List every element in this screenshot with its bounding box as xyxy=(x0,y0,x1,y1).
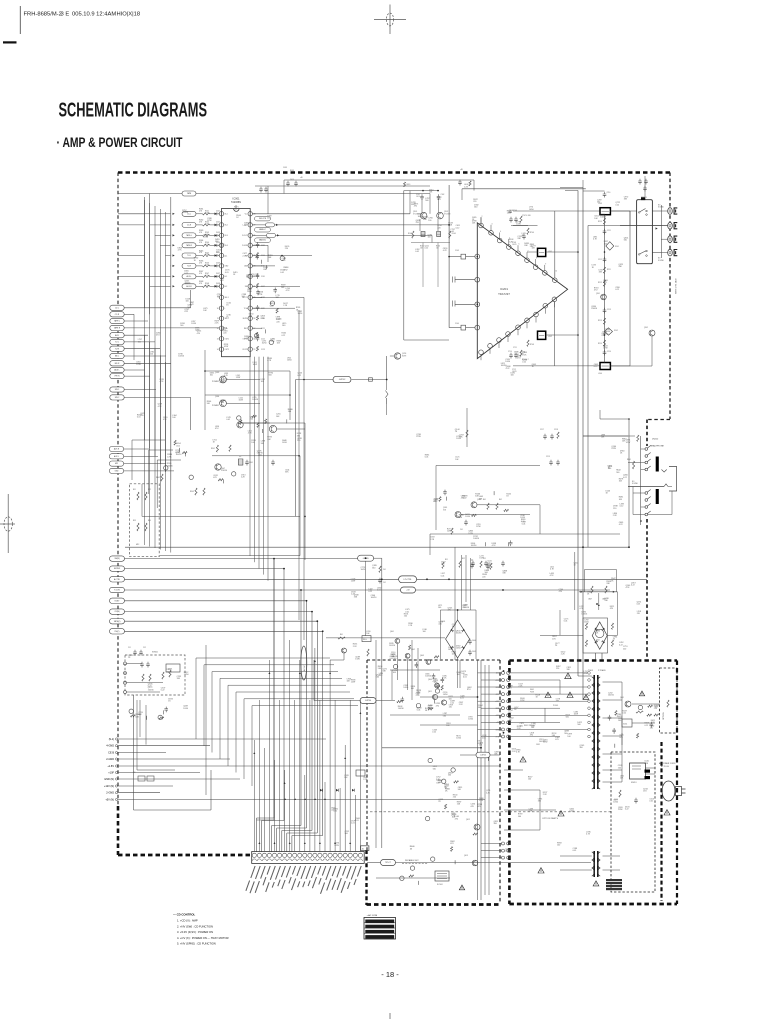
svg-text:B-2: B-2 xyxy=(225,286,228,288)
svg-text:10/50: 10/50 xyxy=(282,442,287,444)
IC001 right component cluster xyxy=(254,254,289,345)
left bus labels xyxy=(136,332,176,421)
wire jack to RCA4 xyxy=(652,252,661,254)
svg-text:SW 2: SW 2 xyxy=(115,397,119,399)
IC001 right side wires xyxy=(252,213,410,215)
svg-text:100/16: 100/16 xyxy=(581,614,587,616)
svg-text:0.22: 0.22 xyxy=(161,690,165,692)
component cluster xyxy=(237,409,294,433)
svg-text:IC201: IC201 xyxy=(500,287,508,291)
svg-text:19: 19 xyxy=(254,308,256,310)
svg-text:CD L: CD L xyxy=(115,307,119,309)
svg-text:Q102: Q102 xyxy=(444,211,448,213)
svg-text:0.01: 0.01 xyxy=(463,677,467,679)
svg-text:8: 8 xyxy=(218,286,219,288)
+5V wire xyxy=(416,589,611,591)
svg-text:TAPE L: TAPE L xyxy=(114,320,120,323)
option box component xyxy=(619,790,621,797)
svg-text:560: 560 xyxy=(345,833,348,835)
svg-text:100: 100 xyxy=(251,442,254,444)
svg-text:3. +5.0V (D,SV) : POWER ON: 3. +5.0V (D,SV) : POWER ON xyxy=(177,930,213,934)
svg-text:D014: D014 xyxy=(216,242,220,244)
J-W705 jumper oval xyxy=(358,555,374,561)
long vertical wire xyxy=(298,310,300,620)
feedback loop right vertical xyxy=(629,211,631,366)
bridge loop wires xyxy=(440,609,476,611)
svg-text:Q604: Q604 xyxy=(428,679,432,681)
D602 outputs to power box xyxy=(594,653,596,660)
bus oval A-CTRL xyxy=(110,577,125,582)
svg-text:Q007: Q007 xyxy=(221,468,225,470)
svg-text:220: 220 xyxy=(654,708,657,710)
IC right rail wire xyxy=(255,185,430,187)
svg-text:SW: SW xyxy=(245,286,248,288)
trimmer VR201 xyxy=(238,459,243,465)
svg-text:R214: R214 xyxy=(598,343,602,345)
middle box connector verticals xyxy=(477,660,479,900)
svg-text:1/2W: 1/2W xyxy=(253,364,258,366)
svg-text:560: 560 xyxy=(372,567,375,569)
svg-text:100/16: 100/16 xyxy=(463,607,469,609)
svg-text:5. +NV (SPKE) : CD FUNCTION: 5. +NV (SPKE) : CD FUNCTION xyxy=(177,942,216,946)
TFT-CTRL oval xyxy=(381,860,396,866)
top rail component at 460 xyxy=(458,180,462,186)
svg-text:SW 1: SW 1 xyxy=(115,389,119,391)
svg-text:0.22: 0.22 xyxy=(506,368,510,370)
relay in option box xyxy=(630,763,646,779)
svg-text:Q651: Q651 xyxy=(620,697,624,699)
svg-text:23: 23 xyxy=(254,266,256,268)
svg-text:10/50: 10/50 xyxy=(191,323,196,325)
right chain vertical wire xyxy=(604,215,606,363)
vertical x=410 join xyxy=(409,191,411,214)
bus oval CD(M) xyxy=(110,609,125,614)
svg-text:Q602: Q602 xyxy=(411,649,415,651)
IC right connector oval row2 xyxy=(266,223,275,227)
D602 upper jog wires xyxy=(584,569,616,571)
svg-text:10/50: 10/50 xyxy=(605,331,610,333)
svg-text:0.22: 0.22 xyxy=(645,725,649,727)
svg-text:1/2W: 1/2W xyxy=(207,220,212,222)
svg-text:10/50: 10/50 xyxy=(468,719,473,721)
connector CD R xyxy=(110,312,124,317)
mid lower labels xyxy=(351,565,381,599)
power right labels xyxy=(608,693,659,739)
print header rule xyxy=(19,6,21,34)
IC001 right labels xyxy=(254,215,302,362)
svg-text:1/2W: 1/2W xyxy=(351,580,356,582)
cluster above triangle xyxy=(509,217,513,223)
svg-text:PH IN: PH IN xyxy=(115,376,120,378)
svg-text:R211: R211 xyxy=(607,269,611,271)
svg-text:R106: R106 xyxy=(205,263,209,265)
svg-text:3 E: 3 E xyxy=(61,12,70,18)
svg-text:220: 220 xyxy=(637,613,640,615)
bus row1 corner vertical xyxy=(273,559,275,820)
power box inner step wires xyxy=(559,680,561,694)
svg-text:560: 560 xyxy=(577,724,580,726)
IC001 right area wires xyxy=(252,244,268,246)
svg-text:15: 15 xyxy=(254,349,256,351)
svg-text:18: 18 xyxy=(254,318,256,320)
svg-text:220: 220 xyxy=(453,797,456,799)
svg-text:220: 220 xyxy=(623,648,626,650)
svg-text:10/50: 10/50 xyxy=(569,811,574,813)
svg-text:3: 3 xyxy=(218,235,219,237)
rotated labels under strip xyxy=(246,866,361,894)
svg-text:Q201: Q201 xyxy=(596,293,600,295)
long vertical wires right of amp xyxy=(577,191,579,677)
middle box mid labels xyxy=(436,742,499,808)
power box connector circles xyxy=(502,671,505,674)
main circuit dashed border left xyxy=(117,173,119,807)
svg-text:C212: C212 xyxy=(598,259,602,261)
svg-text:Q202: Q202 xyxy=(644,327,648,329)
inner dashed box right top xyxy=(660,668,678,733)
jumper J-W702 oval xyxy=(333,376,351,382)
svg-text:560: 560 xyxy=(624,240,627,242)
connector SW 1 xyxy=(110,387,124,392)
bus oval PH(C) xyxy=(110,629,125,634)
svg-text:AUX-R: AUX-R xyxy=(186,285,192,288)
connector CD L xyxy=(110,305,124,310)
svg-text:TAPE R: TAPE R xyxy=(114,327,121,330)
svg-text:560: 560 xyxy=(242,296,245,298)
feedback loop wires xyxy=(554,211,556,278)
svg-text:100: 100 xyxy=(557,845,560,847)
IC201 top edge pin circles xyxy=(479,223,484,228)
svg-text:C214: C214 xyxy=(607,351,611,353)
wire bus from input ovals xyxy=(124,307,190,309)
svg-text:C52: C52 xyxy=(143,647,146,649)
svg-text:100/16: 100/16 xyxy=(276,319,282,321)
svg-text:AUX L: AUX L xyxy=(114,369,119,372)
svg-text:220: 220 xyxy=(449,707,452,709)
svg-text:Q603: Q603 xyxy=(420,655,424,657)
svg-text:OPTION PARTS: OPTION PARTS xyxy=(542,817,559,820)
connector SW 2 xyxy=(110,395,124,400)
svg-text:10K: 10K xyxy=(420,248,423,250)
pre-amp cap C102 xyxy=(437,194,441,200)
mic amp resistors xyxy=(137,492,139,500)
svg-text:220: 220 xyxy=(285,248,288,250)
coupling box C104 xyxy=(461,325,466,330)
svg-text:560: 560 xyxy=(282,325,285,327)
svg-text:MUTE/F: MUTE/F xyxy=(114,568,120,570)
lower left cluster transistor Q005 xyxy=(237,422,243,428)
svg-text:L1: L1 xyxy=(539,253,541,255)
comps between amp and headphone xyxy=(543,434,547,440)
connector TU R xyxy=(110,346,124,351)
diode below J-W702 junction xyxy=(385,391,388,398)
edge mark xyxy=(3,41,17,43)
svg-text:C102: C102 xyxy=(441,194,445,196)
svg-text:C41: C41 xyxy=(460,529,463,531)
svg-text:560: 560 xyxy=(520,725,523,727)
middle box bottom cluster xyxy=(400,846,455,885)
connector strip CN601 body xyxy=(252,852,365,864)
svg-text:100: 100 xyxy=(441,563,444,565)
muting transistor Q003 xyxy=(220,376,227,383)
svg-text:J61: J61 xyxy=(362,848,365,850)
IC001 right pin circles xyxy=(248,212,252,216)
svg-text:560: 560 xyxy=(438,782,441,784)
svg-text:HIO|X|18: HIO|X|18 xyxy=(117,12,141,18)
svg-text:220: 220 xyxy=(437,227,440,229)
input row 6 xyxy=(173,265,175,267)
svg-text:4.7K: 4.7K xyxy=(167,457,172,459)
svg-text:100/16: 100/16 xyxy=(471,545,477,547)
power box inner thick dashed vertical xyxy=(660,742,662,901)
svg-text:100: 100 xyxy=(210,375,213,377)
svg-text:1/2W: 1/2W xyxy=(447,531,452,533)
svg-text:220: 220 xyxy=(267,217,270,219)
transistor Q101 xyxy=(420,212,427,219)
headphone upper contacts xyxy=(645,448,648,451)
T602 warning xyxy=(596,883,598,885)
svg-text:AUX-L: AUX-L xyxy=(187,275,192,278)
svg-text:0.01: 0.01 xyxy=(390,658,394,660)
svg-text:C61: C61 xyxy=(383,569,386,571)
label column boxes xyxy=(138,776,145,781)
svg-text:POWER: POWER xyxy=(212,381,219,383)
svg-text:100: 100 xyxy=(172,417,175,419)
D602 frame xyxy=(583,618,608,653)
svg-text:0.01: 0.01 xyxy=(417,709,421,711)
svg-text:D016: D016 xyxy=(216,262,220,264)
small box near labels xyxy=(356,770,365,776)
svg-text:C604: C604 xyxy=(472,640,476,642)
svg-text:R708: R708 xyxy=(530,344,534,346)
bus wire ST-BY xyxy=(125,600,307,602)
mid small cluster left of bridge xyxy=(338,637,345,639)
svg-text:· AMP & POWER CIRCUIT: · AMP & POWER CIRCUIT xyxy=(57,135,184,150)
power box right cluster xyxy=(608,705,659,748)
mid-left resistors xyxy=(216,445,218,452)
option parts dashed divider xyxy=(370,811,612,813)
warning triangle top xyxy=(565,673,572,679)
lower left cluster transistor Q006 xyxy=(269,425,276,432)
svg-text:D018: D018 xyxy=(216,283,220,285)
headphone extra labels xyxy=(601,435,627,526)
svg-text:TDA7297: TDA7297 xyxy=(498,292,510,296)
svg-text:0.01: 0.01 xyxy=(137,416,141,418)
svg-text:0.01: 0.01 xyxy=(649,800,653,802)
headphone input resistor xyxy=(637,435,639,441)
svg-text:R33: R33 xyxy=(133,520,136,522)
svg-text:10/50: 10/50 xyxy=(403,687,408,689)
svg-text:10/50: 10/50 xyxy=(529,209,534,211)
top rail capacitor xyxy=(286,181,290,187)
svg-text:560: 560 xyxy=(443,715,446,717)
svg-text:GND (N): GND (N) xyxy=(104,778,114,781)
headphone resistor R801 xyxy=(633,461,635,469)
svg-text:10/50: 10/50 xyxy=(505,361,510,363)
svg-text:0.22: 0.22 xyxy=(297,375,301,377)
svg-text:C219: C219 xyxy=(546,456,550,458)
svg-text:2: 2 xyxy=(218,225,219,227)
svg-text:100/16: 100/16 xyxy=(389,645,395,647)
svg-text:10/50: 10/50 xyxy=(448,649,453,651)
power box horizontal wires to transformer xyxy=(510,672,588,674)
svg-text:0.01: 0.01 xyxy=(564,620,568,622)
LP-CTRL oval xyxy=(399,576,417,583)
power box right wires xyxy=(632,703,660,705)
mid-left long rails xyxy=(142,515,300,517)
svg-text:560: 560 xyxy=(448,775,451,777)
svg-text:0.22: 0.22 xyxy=(594,366,598,368)
bridge caps right xyxy=(468,639,472,645)
svg-text:TA2068N: TA2068N xyxy=(231,201,241,204)
bead on J-W702 wire xyxy=(369,378,373,381)
svg-text:100: 100 xyxy=(528,779,531,781)
power box left lower wires xyxy=(504,855,560,857)
diode D201 diamond xyxy=(606,242,614,251)
svg-text:+1.8V: +1.8V xyxy=(107,765,114,768)
wire RCA2 xyxy=(620,225,661,227)
transistor Q201 xyxy=(601,294,607,300)
transistor Q202 xyxy=(649,330,655,336)
svg-text:560: 560 xyxy=(552,735,555,737)
svg-text:TU L: TU L xyxy=(115,342,119,344)
registration tick bottom xyxy=(389,1013,391,1019)
svg-text:0.01: 0.01 xyxy=(482,737,486,739)
svg-text:C651: C651 xyxy=(536,744,540,746)
drive component cluster xyxy=(439,490,513,547)
input row 4 xyxy=(173,244,175,246)
main circuit dashed border left lower thick xyxy=(117,806,120,855)
svg-text:IC651: IC651 xyxy=(623,724,627,726)
svg-text:100/16: 100/16 xyxy=(473,538,479,540)
headphone jack frame xyxy=(669,467,677,492)
svg-text:TU R: TU R xyxy=(115,348,120,350)
svg-text:8: 8 xyxy=(536,258,537,260)
svg-text:100/16: 100/16 xyxy=(418,216,424,218)
IC201 left edge vertical xyxy=(476,225,478,358)
pre-amp labels xyxy=(411,190,455,254)
svg-text:2-GND: 2-GND xyxy=(106,758,114,761)
svg-text:0.22: 0.22 xyxy=(631,585,635,587)
svg-text:4.7K: 4.7K xyxy=(258,294,263,296)
pre-amp cap C101 xyxy=(420,194,424,200)
svg-text:P.TRANS: P.TRANS xyxy=(598,669,606,672)
top rail component at 470 xyxy=(469,181,471,186)
svg-text:1/2W: 1/2W xyxy=(416,436,421,438)
power lower labels xyxy=(505,776,590,852)
signal label oval xyxy=(255,216,271,221)
power rails into power box xyxy=(476,619,500,621)
bottom middle dashed box xyxy=(367,659,500,661)
regulator labels xyxy=(382,605,471,710)
signal label oval xyxy=(255,227,271,232)
wire right of strip xyxy=(376,877,450,879)
wires through beads xyxy=(546,251,578,253)
svg-text:10: 10 xyxy=(555,271,557,273)
mid verticals from bus to middle box xyxy=(454,547,456,660)
svg-text:+12V (N): +12V (N) xyxy=(104,785,114,788)
headphone labels xyxy=(608,440,631,518)
svg-text:R61: R61 xyxy=(340,634,343,636)
svg-text:1/2W: 1/2W xyxy=(618,809,623,811)
svg-text:L: L xyxy=(225,308,226,310)
svg-text:100: 100 xyxy=(438,607,441,609)
svg-text:C706: C706 xyxy=(513,210,517,212)
headphone lower contacts xyxy=(645,492,648,495)
svg-text:10/50: 10/50 xyxy=(391,654,396,656)
input row 8 xyxy=(173,285,175,287)
svg-text:AC-W: AC-W xyxy=(303,666,306,671)
svg-text:10/50: 10/50 xyxy=(287,360,292,362)
svg-text:100/16: 100/16 xyxy=(166,671,172,673)
cap pair right xyxy=(470,563,474,569)
svg-text:100: 100 xyxy=(457,674,460,676)
svg-text:26: 26 xyxy=(254,235,256,237)
coupling box C103 xyxy=(461,254,466,259)
power box right components xyxy=(625,701,631,707)
svg-text:100/16: 100/16 xyxy=(505,851,511,853)
speaker jack SP001 body xyxy=(637,200,653,264)
bus oval MUTE/F xyxy=(110,566,125,571)
svg-text:100/16: 100/16 xyxy=(600,216,606,218)
T602 spec text block xyxy=(606,879,622,881)
svg-text:0.01: 0.01 xyxy=(280,272,284,274)
svg-text:0.01: 0.01 xyxy=(603,282,607,284)
svg-text:0.22: 0.22 xyxy=(184,311,188,313)
svg-text:1/2W: 1/2W xyxy=(468,533,473,535)
svg-text:D011: D011 xyxy=(216,210,220,212)
nested corner wires left-mid xyxy=(131,440,133,480)
svg-text:100/16: 100/16 xyxy=(178,356,184,358)
svg-text:100/16: 100/16 xyxy=(176,454,182,456)
power transformer T601 primary winding xyxy=(593,675,595,789)
svg-text:C62: C62 xyxy=(383,582,386,584)
svg-text:R52: R52 xyxy=(462,558,465,560)
svg-text:1/2W: 1/2W xyxy=(603,348,608,350)
svg-text:MD L: MD L xyxy=(115,356,119,358)
svg-text:D013: D013 xyxy=(216,232,220,234)
svg-text:100/16: 100/16 xyxy=(185,283,191,285)
svg-text:OUT1: OUT1 xyxy=(225,339,230,341)
svg-text:10/50: 10/50 xyxy=(184,674,189,676)
jack top black tab xyxy=(641,197,645,200)
wires top right corner to jack xyxy=(644,176,646,197)
svg-text:220: 220 xyxy=(650,728,653,730)
input row 7 xyxy=(173,275,175,277)
AC power plug xyxy=(662,781,675,801)
svg-text:100/16: 100/16 xyxy=(539,741,545,743)
svg-text:Q004: Q004 xyxy=(215,396,219,398)
svg-text:100/16: 100/16 xyxy=(252,399,258,401)
svg-text:A-CTRL: A-CTRL xyxy=(114,578,120,581)
svg-text:560: 560 xyxy=(597,202,600,204)
drive cluster wires xyxy=(430,533,620,535)
svg-text:220: 220 xyxy=(234,209,237,211)
svg-text:— CD CONTROL: — CD CONTROL xyxy=(173,913,196,917)
cluster left of bridge transistors xyxy=(395,639,400,644)
D602 side resistors xyxy=(585,623,587,629)
svg-text:100/16: 100/16 xyxy=(148,689,154,691)
mid labels xyxy=(416,429,464,461)
svg-text:R210: R210 xyxy=(598,221,602,223)
below triangle labels xyxy=(501,352,537,377)
svg-text:560: 560 xyxy=(494,823,497,825)
below IC labels xyxy=(207,362,302,435)
svg-text:J-W706: J-W706 xyxy=(480,755,486,757)
corner verticals from oval rows xyxy=(190,290,192,308)
nested L wires above strip xyxy=(196,657,330,659)
main circuit dashed border right jog xyxy=(647,419,670,421)
svg-text:(9-1): (9-1) xyxy=(109,738,114,741)
